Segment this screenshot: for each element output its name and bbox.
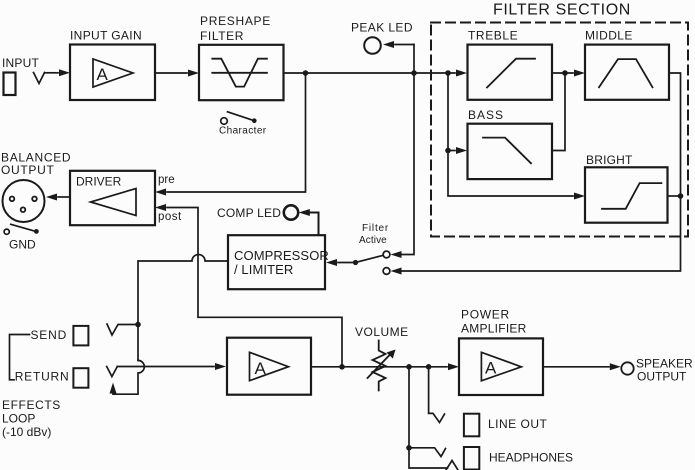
svg-text:TREBLE: TREBLE	[468, 29, 518, 43]
send jack	[73, 326, 88, 346]
svg-text:INPUT GAIN: INPUT GAIN	[70, 29, 142, 43]
gnd lift switch	[4, 229, 9, 234]
svg-text:VOLUME: VOLUME	[355, 325, 409, 339]
bright curve	[602, 183, 661, 209]
svg-text:GND: GND	[9, 238, 36, 252]
Character switch contact	[221, 118, 228, 125]
node treble/bass split	[445, 70, 451, 76]
svg-text:POWER: POWER	[461, 308, 510, 322]
send jack contact	[107, 324, 138, 335]
input jack tip contact	[34, 73, 45, 84]
wire split down to bass and bright	[448, 73, 573, 196]
svg-text:A: A	[485, 359, 497, 378]
svg-text:OUTPUT: OUTPUT	[637, 370, 687, 384]
COMP LED	[284, 205, 298, 219]
bass curve	[483, 138, 531, 164]
wire amp out to power amp	[311, 366, 447, 368]
headphone jack tip contact	[409, 448, 446, 457]
input jack J1	[4, 73, 16, 96]
filter block PRESHAPE	[199, 45, 284, 100]
node line out tap	[406, 364, 412, 370]
wire pre tap down to driver	[167, 73, 306, 192]
svg-text:SEND: SEND	[31, 328, 68, 342]
wire switch to compressor	[338, 262, 356, 264]
wire post tap to driver	[167, 208, 342, 367]
svg-text:BRIGHT: BRIGHT	[586, 153, 633, 167]
svg-text:PEAK LED: PEAK LED	[351, 21, 413, 35]
filter active contact lower	[383, 268, 390, 275]
wire bass out up to join	[552, 73, 565, 151]
line out jack	[464, 414, 479, 437]
svg-text:MIDDLE: MIDDLE	[585, 29, 633, 43]
PEAK LED	[364, 37, 381, 54]
xlr pin 2	[32, 197, 37, 202]
wire driver to xlr	[58, 196, 70, 198]
COMPRESSOR / LIMITER block	[228, 235, 325, 289]
svg-text:PRESHAPE: PRESHAPE	[200, 14, 271, 28]
svg-text:Character: Character	[219, 126, 267, 137]
svg-text:RETURN: RETURN	[15, 370, 70, 384]
xlr pin 1	[10, 197, 15, 202]
filter block BRIGHT	[585, 167, 668, 222]
treble curve	[487, 59, 535, 88]
svg-text:BASS: BASS	[468, 108, 504, 122]
wire bypass vertical	[402, 45, 414, 255]
node bass join	[562, 70, 568, 76]
effects loop amplifier block	[227, 338, 311, 395]
svg-text:A: A	[97, 65, 109, 84]
vertical hop over return wire	[113, 360, 144, 394]
XLR connector	[3, 180, 45, 222]
node bright join	[678, 193, 684, 199]
speaker output terminal	[621, 362, 633, 374]
svg-text:DRIVER: DRIVER	[76, 175, 122, 189]
wire return to amp	[117, 366, 214, 368]
volume arrow	[368, 353, 392, 378]
wire input to gain	[45, 72, 59, 74]
wire to line out jack	[429, 367, 445, 423]
svg-text:post: post	[158, 211, 182, 223]
svg-text:COMP LED: COMP LED	[217, 206, 281, 220]
headphones jack	[464, 447, 479, 470]
filter active contact upper	[383, 251, 390, 258]
svg-text:/ LIMITER: / LIMITER	[234, 262, 293, 277]
filter section dashed box	[431, 23, 688, 237]
wire compressor out with hop over post line	[138, 255, 228, 361]
amplifier block INPUT GAIN	[70, 45, 155, 101]
svg-text:COMPRESSOR: COMPRESSOR	[234, 248, 329, 263]
svg-text:A: A	[255, 359, 267, 378]
svg-text:HEADPHONES: HEADPHONES	[489, 451, 573, 465]
wire preshape to treble	[284, 72, 456, 74]
preshape notch curve	[212, 72, 267, 74]
svg-text:AMPLIFIER: AMPLIFIER	[461, 322, 527, 336]
Character switch lever	[228, 112, 254, 121]
filter block MIDDLE	[585, 45, 669, 100]
svg-text:Filter: Filter	[362, 223, 389, 234]
input gain triangle	[93, 59, 133, 87]
node post tap	[339, 364, 345, 370]
wire into bass	[448, 150, 455, 152]
wire to peak led	[395, 44, 414, 46]
headphone jack ring contact	[446, 461, 458, 470]
DRIVER block	[70, 171, 155, 225]
power amplifier block	[459, 338, 543, 395]
svg-text:INPUT: INPUT	[2, 56, 39, 70]
effects amp triangle	[250, 352, 289, 380]
filter active lever	[356, 255, 384, 262]
node lineout jack tap	[426, 364, 432, 370]
node pre tap	[303, 70, 309, 76]
svg-text:(-10 dBv): (-10 dBv)	[2, 425, 51, 439]
xlr pin 3	[21, 207, 26, 212]
svg-text:FILTER SECTION: FILTER SECTION	[493, 2, 631, 19]
svg-text:SPEAKER: SPEAKER	[636, 357, 693, 371]
wire middle out down right side	[402, 73, 681, 271]
node peak/bypass tap	[411, 70, 417, 76]
svg-text:LINE OUT: LINE OUT	[488, 417, 548, 431]
node send tap	[135, 322, 141, 328]
volume potentiometer	[373, 341, 386, 391]
filter block TREBLE	[468, 45, 553, 100]
svg-text:FILTER: FILTER	[200, 29, 244, 43]
svg-text:pre: pre	[158, 174, 175, 186]
effects loop bracket	[10, 335, 30, 380]
wire treble to middle	[552, 72, 573, 74]
wire comp led	[311, 213, 319, 236]
return jack	[73, 368, 88, 388]
wire bright out	[668, 195, 681, 197]
node bass tap	[445, 148, 451, 154]
middle curve	[599, 59, 653, 87]
wire to headphones	[409, 367, 448, 468]
wire power amp to speaker	[543, 366, 609, 368]
power amp triangle	[481, 352, 521, 381]
return jack contact	[107, 367, 118, 377]
svg-text:Active: Active	[359, 235, 387, 246]
driver triangle	[91, 189, 137, 216]
filter block BASS	[468, 124, 553, 179]
node headphones tap	[406, 445, 412, 451]
svg-text:OUTPUT: OUTPUT	[1, 163, 55, 177]
wire gain to preshape	[155, 72, 187, 74]
svg-text:EFFECTS: EFFECTS	[2, 398, 61, 412]
svg-text:LOOP: LOOP	[2, 412, 35, 426]
